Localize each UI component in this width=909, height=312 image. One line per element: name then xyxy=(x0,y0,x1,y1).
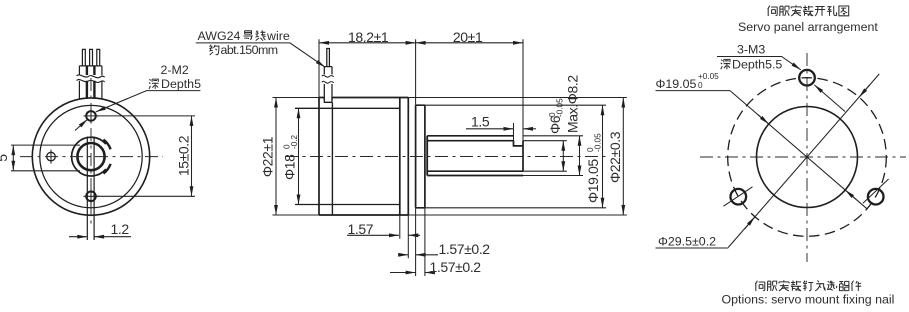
svg-text:+0.05: +0.05 xyxy=(698,72,719,81)
svg-text:-0.2: -0.2 xyxy=(290,134,299,149)
svg-text:Φ22±0.3: Φ22±0.3 xyxy=(607,131,623,183)
svg-text:wire: wire xyxy=(266,29,290,43)
svg-text:1.57: 1.57 xyxy=(348,221,374,237)
svg-text:Φ19.05: Φ19.05 xyxy=(656,77,697,91)
svg-text:-0.05: -0.05 xyxy=(556,98,565,117)
svg-text:18.2±1: 18.2±1 xyxy=(348,29,389,45)
svg-text:20±1: 20±1 xyxy=(453,29,483,45)
svg-text:AWG24: AWG24 xyxy=(198,29,241,43)
svg-text:Φ6: Φ6 xyxy=(547,115,563,134)
svg-text:Max.Φ8.2: Max.Φ8.2 xyxy=(565,75,581,133)
svg-text:3-M3: 3-M3 xyxy=(737,43,765,57)
svg-text:1.2: 1.2 xyxy=(111,221,130,237)
svg-text:-0.05: -0.05 xyxy=(594,133,603,152)
svg-text:1.57±0.2: 1.57±0.2 xyxy=(439,241,491,257)
svg-text:abt.150mm: abt.150mm xyxy=(221,43,278,57)
svg-text:5: 5 xyxy=(0,154,10,162)
svg-text:Φ19.05: Φ19.05 xyxy=(585,159,601,203)
svg-text:Φ29.5±0.2: Φ29.5±0.2 xyxy=(658,235,716,249)
svg-text:Servo panel arrangement: Servo panel arrangement xyxy=(738,20,878,34)
svg-text:Depth5: Depth5 xyxy=(161,77,201,91)
svg-text:1.5: 1.5 xyxy=(471,114,490,130)
svg-text:2-M2: 2-M2 xyxy=(161,63,189,77)
svg-text:1.57±0.2: 1.57±0.2 xyxy=(430,259,482,275)
svg-text:Depth5.5: Depth5.5 xyxy=(732,57,782,71)
svg-text:Φ22±1: Φ22±1 xyxy=(260,136,276,177)
svg-text:Options: servo mount fixing na: Options: servo mount fixing nail xyxy=(722,293,895,307)
svg-text:15±0.2: 15±0.2 xyxy=(176,135,192,176)
svg-text:Φ18: Φ18 xyxy=(282,154,298,180)
svg-text:0: 0 xyxy=(698,81,703,90)
